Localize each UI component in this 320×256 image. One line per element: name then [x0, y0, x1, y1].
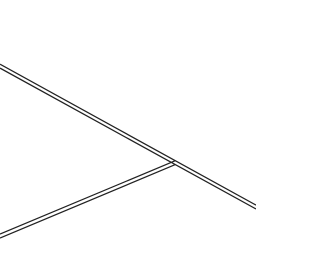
wire: ascending beam upper edge	[0, 161, 175, 234]
wire: descending beam upper edge	[0, 64, 256, 205]
wire: descending beam lower edge	[0, 68, 256, 209]
wireframe drawing of two thin beams	[0, 0, 256, 256]
wire: ascending beam lower edge	[0, 165, 175, 238]
